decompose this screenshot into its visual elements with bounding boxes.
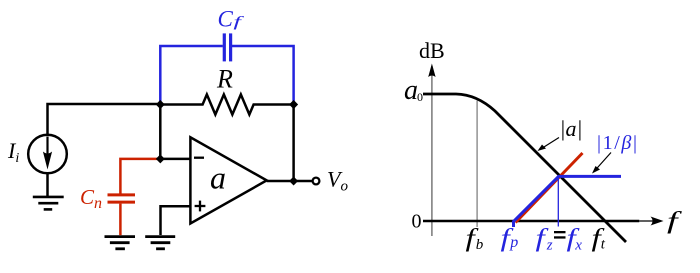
- svg-text:R: R: [216, 65, 233, 94]
- svg-text:dB: dB: [419, 38, 445, 63]
- svg-text:|1/β|: |1/β|: [597, 132, 639, 154]
- svg-text:a: a: [210, 160, 226, 196]
- svg-text:|a|: |a|: [560, 116, 583, 141]
- svg-text:0: 0: [412, 211, 422, 233]
